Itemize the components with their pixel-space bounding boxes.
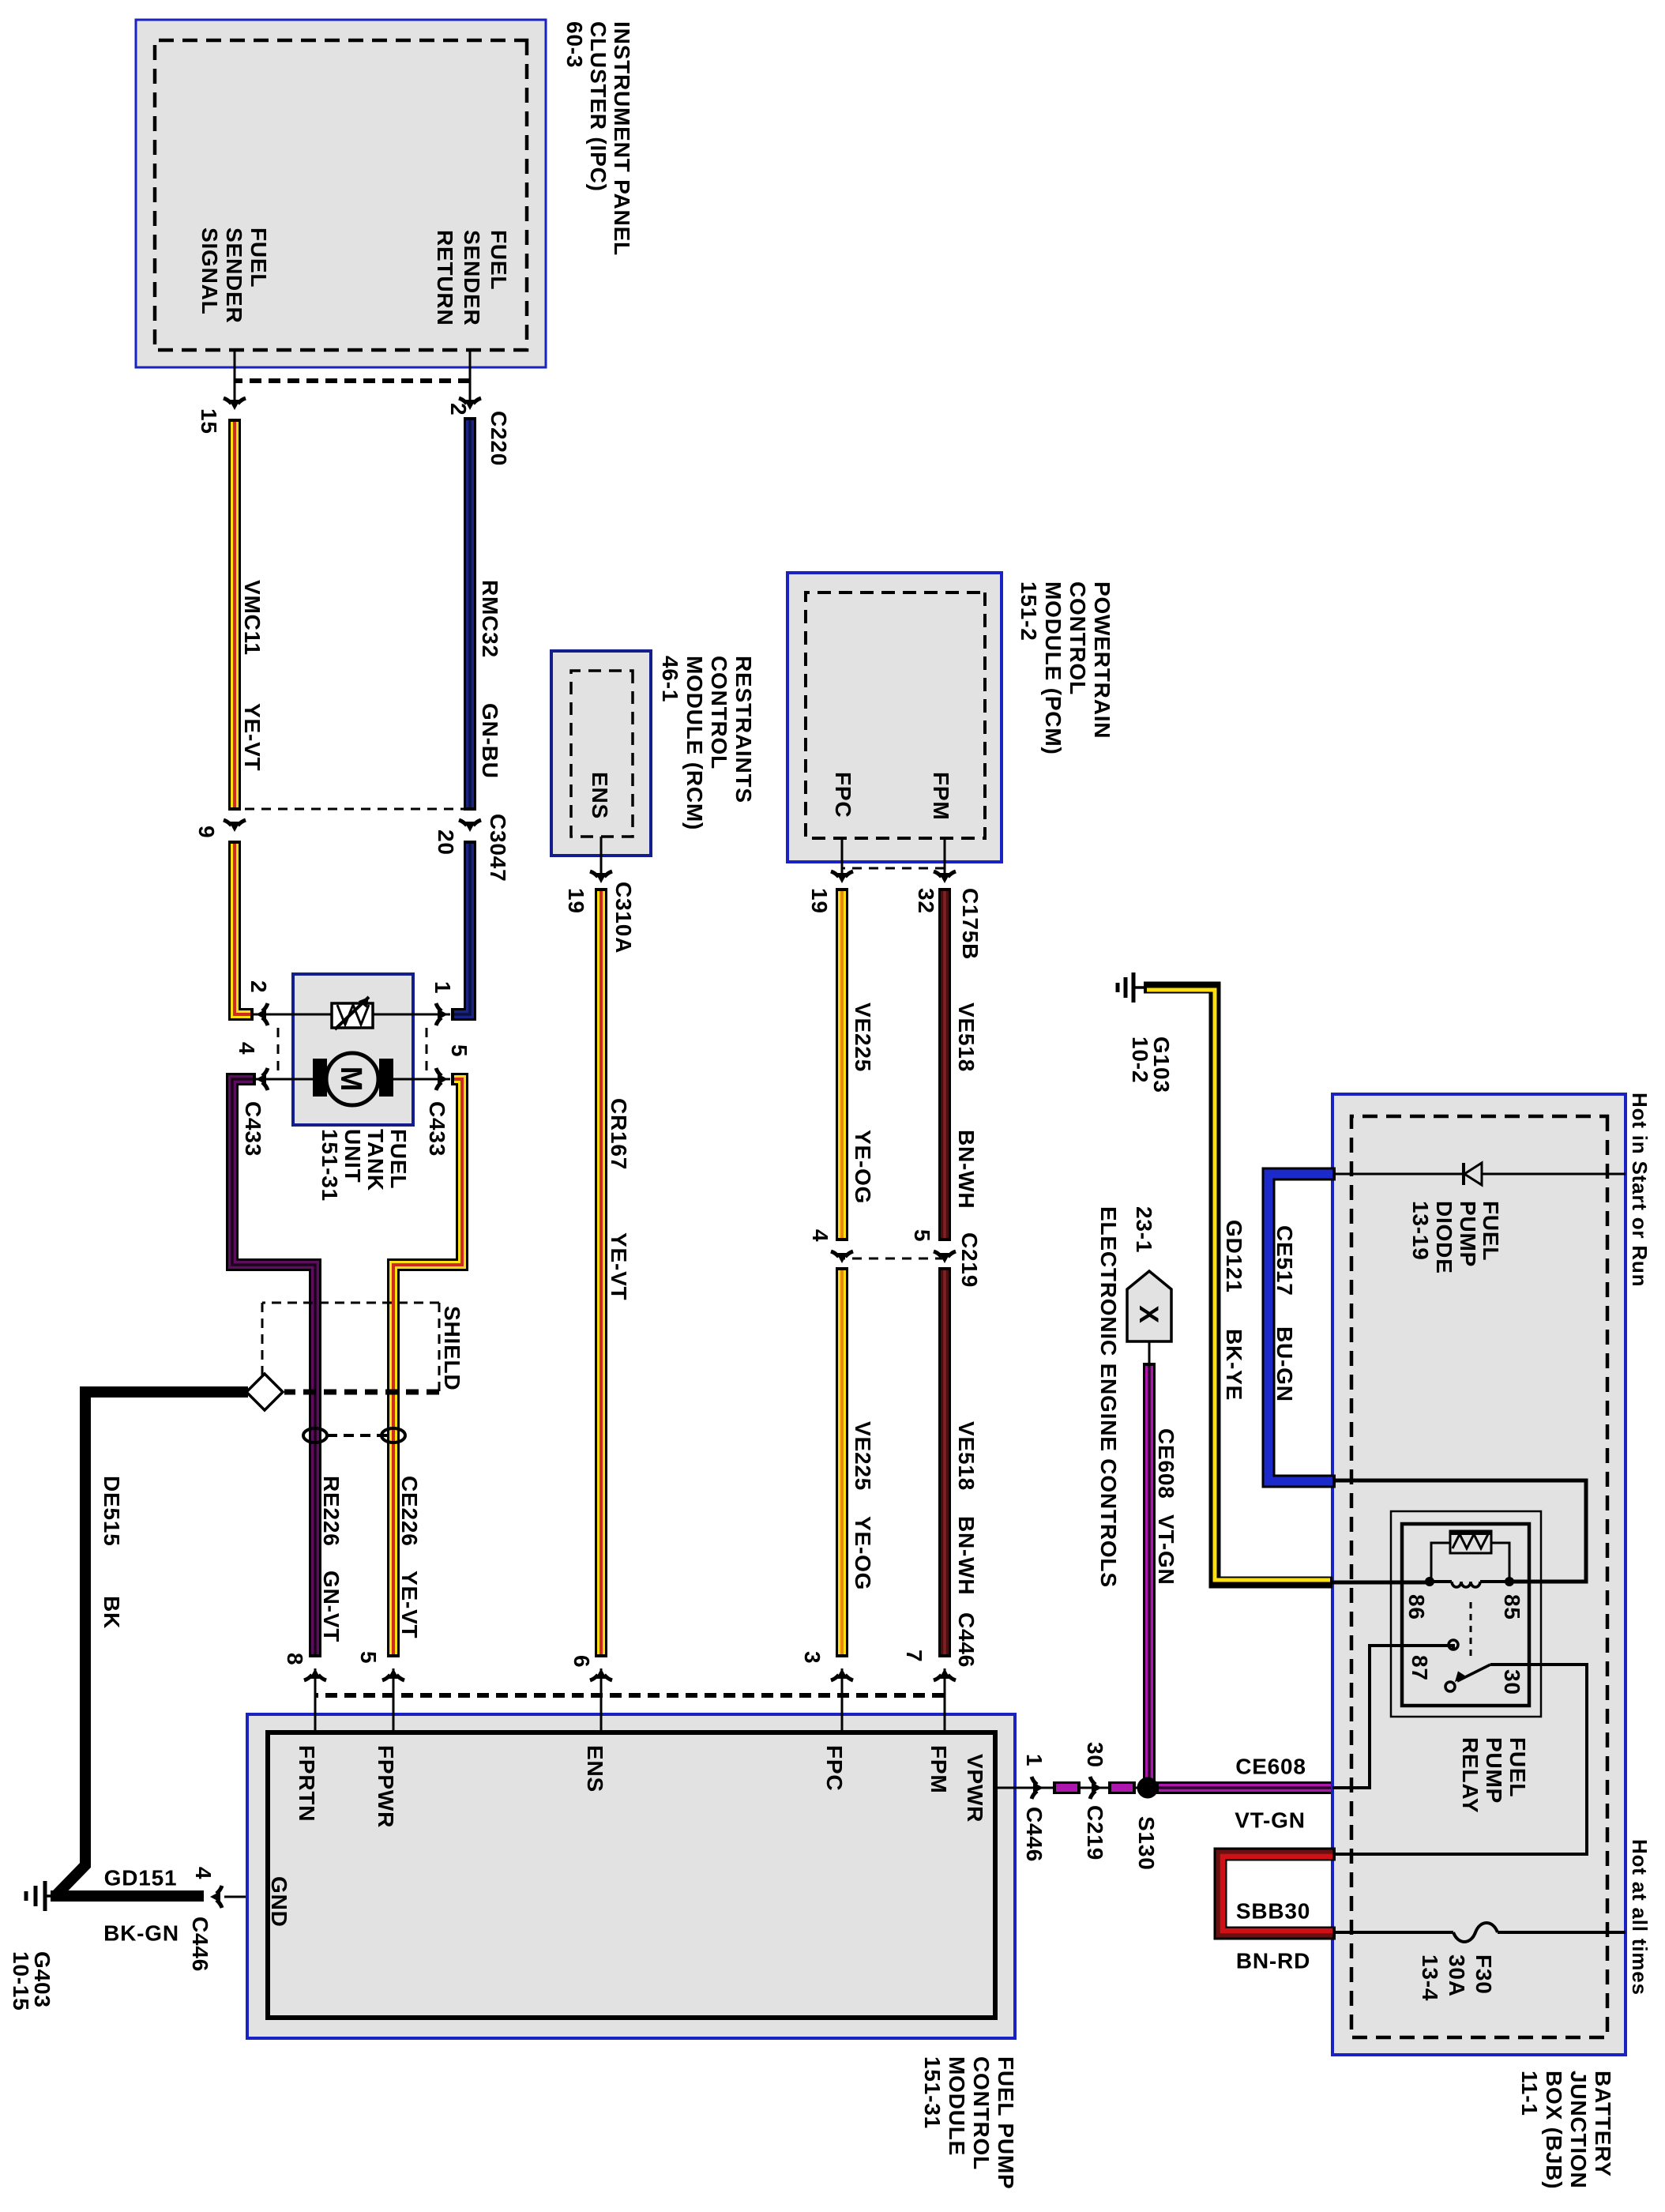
- svg-text:FPRTN: FPRTN: [295, 1745, 319, 1822]
- junction dot 85: [1505, 1577, 1514, 1586]
- PCM pin 32 arrow: [934, 871, 956, 883]
- pin arrow 9: [224, 820, 246, 832]
- wire GD151: [51, 1890, 204, 1902]
- pin arrow 2: [459, 398, 481, 410]
- IPC pin 2 stub wire: [469, 350, 472, 405]
- label FUEL SENDER RETURN: [433, 230, 511, 326]
- svg-text:GD121: GD121: [1222, 1220, 1246, 1293]
- svg-text:C433: C433: [241, 1101, 265, 1157]
- svg-text:C219: C219: [1083, 1805, 1107, 1860]
- svg-text:YE-VT: YE-VT: [397, 1571, 422, 1638]
- connector C175B dashed line: [842, 867, 945, 870]
- label G103 10-2: [1128, 1036, 1174, 1093]
- svg-text:POWERTRAIN: POWERTRAIN: [1090, 581, 1114, 739]
- svg-text:FUEL: FUEL: [1505, 1737, 1530, 1797]
- svg-text:1: 1: [1022, 1754, 1047, 1766]
- svg-text:30A: 30A: [1445, 1954, 1469, 1997]
- svg-text:C446: C446: [954, 1612, 979, 1668]
- svg-text:C175B: C175B: [958, 888, 983, 960]
- svg-text:BK: BK: [100, 1596, 124, 1629]
- label GD121 BK-YE: [1222, 1220, 1246, 1401]
- connector C433 dashed line right: [426, 1028, 428, 1070]
- svg-text:PUMP: PUMP: [1482, 1737, 1506, 1804]
- svg-text:MODULE (PCM): MODULE (PCM): [1041, 581, 1066, 755]
- svg-text:3: 3: [800, 1651, 825, 1664]
- label FUEL SENDER SIGNAL: [197, 228, 271, 324]
- svg-text:C446: C446: [1022, 1807, 1047, 1862]
- fuel pump diode feed line: [1332, 1173, 1626, 1176]
- label DE515 BK: [100, 1476, 124, 1629]
- sender wire through rheostat: [293, 1014, 413, 1016]
- label VE518 BN-WH upper: [954, 1003, 979, 1209]
- svg-text:FPM: FPM: [926, 1745, 951, 1794]
- svg-text:SHIELD: SHIELD: [440, 1306, 464, 1390]
- svg-text:MODULE (RCM): MODULE (RCM): [682, 656, 707, 830]
- svg-text:BOX (BJB): BOX (BJB): [1542, 2071, 1566, 2189]
- svg-text:FPM: FPM: [929, 772, 953, 821]
- svg-text:13-4: 13-4: [1418, 1954, 1442, 2001]
- relay terminal 87 contact: [1449, 1640, 1458, 1650]
- pin 2 lead: [251, 1014, 293, 1016]
- FPCM pin 3 arrow: [831, 1668, 853, 1680]
- PCM pin 19 lead: [841, 838, 844, 877]
- label FUEL TANK UNIT 151-31: [318, 1129, 411, 1202]
- svg-text:2: 2: [446, 403, 471, 416]
- svg-text:UNIT: UNIT: [340, 1129, 365, 1183]
- motor supply wire: [293, 1078, 413, 1081]
- svg-text:6: 6: [569, 1655, 594, 1668]
- svg-text:Hot at all times: Hot at all times: [1628, 1839, 1652, 1996]
- instrument panel cluster box: [136, 20, 546, 367]
- IPC inner dashed boundary: [155, 40, 527, 350]
- FPCM pin 5 arrow: [382, 1668, 404, 1680]
- pin arrow 15: [224, 398, 246, 410]
- svg-text:19: 19: [564, 888, 588, 914]
- svg-text:RETURN: RETURN: [433, 230, 457, 325]
- svg-text:BN-WH: BN-WH: [954, 1130, 979, 1209]
- svg-text:YE-VT: YE-VT: [240, 703, 265, 771]
- fuse element: [1453, 1923, 1498, 1942]
- svg-text:GND: GND: [267, 1876, 291, 1928]
- svg-text:YE-OG: YE-OG: [851, 1516, 875, 1590]
- svg-text:4: 4: [191, 1867, 216, 1879]
- motor brush top: [379, 1059, 393, 1097]
- label CR167 YE-VT: [607, 1098, 631, 1300]
- svg-text:DIODE: DIODE: [1432, 1201, 1456, 1274]
- svg-text:4: 4: [235, 1042, 259, 1055]
- svg-text:5: 5: [910, 1229, 934, 1242]
- svg-text:FPC: FPC: [831, 772, 855, 818]
- svg-text:VE518: VE518: [954, 1421, 979, 1491]
- svg-text:C3047: C3047: [486, 814, 510, 882]
- svg-text:30: 30: [1500, 1669, 1524, 1695]
- PCM pin 32 lead: [944, 838, 946, 877]
- label CE226 YE-VT: [397, 1476, 422, 1638]
- splice S130: [1137, 1777, 1159, 1799]
- svg-text:SENDER: SENDER: [222, 228, 246, 324]
- pin arrow 20: [459, 820, 481, 832]
- svg-text:CE608: CE608: [1235, 1754, 1306, 1778]
- svg-text:VE225: VE225: [851, 1421, 875, 1491]
- svg-text:ENS: ENS: [583, 1745, 607, 1793]
- svg-text:GN-VT: GN-VT: [319, 1571, 344, 1642]
- svg-text:GN-BU: GN-BU: [478, 703, 502, 779]
- motor brush bottom: [313, 1059, 327, 1097]
- relay outer box: [1391, 1511, 1541, 1717]
- svg-text:BK-YE: BK-YE: [1222, 1329, 1246, 1401]
- svg-text:ENS: ENS: [588, 772, 612, 819]
- label FUEL PUMP CONTROL MODULE 151-31: [920, 2056, 1018, 2189]
- svg-text:CONTROL: CONTROL: [707, 656, 731, 769]
- svg-text:CR167: CR167: [607, 1098, 631, 1170]
- ground symbol G103: [1118, 972, 1147, 1003]
- label VE518 BN-WH lower: [954, 1421, 979, 1595]
- svg-text:MODULE: MODULE: [945, 2056, 969, 2156]
- label INSTRUMENT PANEL CLUSTER (IPC) 60-3: [562, 21, 634, 256]
- relay switch arm: [1445, 1665, 1490, 1691]
- svg-text:19: 19: [807, 888, 832, 914]
- relay coil bumps: [1452, 1582, 1480, 1587]
- pentagon lead: [1148, 1341, 1151, 1366]
- label FUEL PUMP DIODE 13-19: [1408, 1201, 1503, 1274]
- pin 1 lead: [413, 1014, 450, 1016]
- RCM pin 19 arrow: [590, 871, 612, 883]
- svg-text:151-2: 151-2: [1017, 581, 1041, 641]
- FPCM pin 7 lead: [944, 1668, 946, 1732]
- svg-text:8: 8: [283, 1653, 307, 1665]
- svg-text:4: 4: [808, 1229, 832, 1242]
- svg-text:151-31: 151-31: [920, 2056, 945, 2129]
- BJB inner dashed boundary: [1351, 1116, 1607, 2037]
- label POWERTRAIN CONTROL MODULE (PCM) 151-2: [1017, 581, 1114, 755]
- svg-text:YE-VT: YE-VT: [607, 1232, 631, 1300]
- svg-text:BU-GN: BU-GN: [1272, 1326, 1297, 1402]
- pin 4 lead: [251, 1078, 293, 1081]
- GD121 continuation inside BJB to relay 86: [1332, 1581, 1430, 1585]
- pin 5 lead: [413, 1078, 450, 1081]
- svg-text:FPPWR: FPPWR: [374, 1745, 398, 1828]
- FPCM pin 6 arrow: [590, 1668, 612, 1680]
- svg-text:BN-RD: BN-RD: [1236, 1948, 1310, 1973]
- svg-text:BK-GN: BK-GN: [103, 1920, 179, 1945]
- svg-text:RELAY: RELAY: [1458, 1737, 1483, 1813]
- shield dashed boundary: [262, 1303, 439, 1395]
- label RESTRAINTS CONTROL MODULE (RCM) 46-1: [658, 656, 756, 830]
- VPWR pin lead line: [995, 1787, 1148, 1789]
- C219 pin 4 arrow: [831, 1251, 853, 1263]
- relay coil line: [1480, 1580, 1509, 1583]
- pin 5 arrow: [436, 1068, 448, 1090]
- svg-text:SBB30: SBB30: [1236, 1898, 1310, 1923]
- svg-text:23-1: 23-1: [1132, 1206, 1156, 1253]
- svg-text:87: 87: [1408, 1655, 1432, 1681]
- svg-text:11-1: 11-1: [1517, 2071, 1542, 2116]
- fuse feed line: [1498, 1931, 1626, 1934]
- svg-text:RESTRAINTS: RESTRAINTS: [731, 656, 756, 803]
- PCM pin 19 arrow: [831, 871, 853, 883]
- svg-text:M: M: [334, 1066, 367, 1092]
- connector C220 dashed line: [235, 378, 470, 383]
- svg-text:FUEL: FUEL: [386, 1129, 411, 1189]
- svg-text:F30: F30: [1471, 1954, 1496, 1995]
- wire GD121 BK-YE: [1144, 987, 1332, 1582]
- label RMC32 GN-BU: [478, 580, 502, 779]
- svg-text:X: X: [1133, 1305, 1163, 1323]
- svg-text:S130: S130: [1134, 1816, 1159, 1871]
- label CE517 BU-GN: [1272, 1225, 1297, 1402]
- svg-text:32: 32: [914, 888, 938, 914]
- pin 4 arrow: [256, 1068, 268, 1090]
- svg-text:60-3: 60-3: [562, 21, 587, 68]
- svg-text:CLUSTER (IPC): CLUSTER (IPC): [586, 21, 611, 192]
- FPCM pin 5 lead: [393, 1668, 395, 1732]
- svg-text:RE226: RE226: [319, 1476, 344, 1547]
- svg-text:46-1: 46-1: [658, 656, 682, 702]
- label G403 10-15: [9, 1951, 54, 2011]
- svg-text:CE226: CE226: [397, 1476, 422, 1547]
- svg-text:FUEL PUMP: FUEL PUMP: [994, 2056, 1018, 2189]
- label BATTERY JUNCTION BOX (BJB) 11-1: [1517, 2071, 1615, 2189]
- svg-text:FUEL: FUEL: [487, 230, 511, 290]
- connector 1 C446 arrow: [1032, 1777, 1043, 1799]
- svg-text:DE515: DE515: [100, 1476, 124, 1547]
- svg-text:CE517: CE517: [1272, 1225, 1297, 1296]
- rheostat (variable resistor): [332, 996, 373, 1029]
- svg-text:5: 5: [447, 1044, 472, 1057]
- junction dot 86: [1425, 1577, 1434, 1586]
- svg-text:10-2: 10-2: [1128, 1036, 1152, 1083]
- svg-text:C433: C433: [425, 1101, 449, 1157]
- off-page connector pentagon X: [1127, 1271, 1171, 1341]
- svg-text:20: 20: [434, 829, 458, 856]
- svg-text:INSTRUMENT PANEL: INSTRUMENT PANEL: [610, 21, 634, 256]
- relay inner box: [1402, 1524, 1529, 1706]
- connector C446 dashed line at FPCM: [315, 1693, 944, 1698]
- RCM pin 19 lead: [600, 837, 603, 877]
- svg-text:VE518: VE518: [954, 1003, 979, 1072]
- svg-text:FUEL: FUEL: [246, 228, 271, 288]
- svg-text:FPC: FPC: [822, 1745, 847, 1791]
- svg-text:C220: C220: [487, 411, 511, 466]
- svg-text:CE608: CE608: [1154, 1428, 1178, 1499]
- label F30 30A 13-4: [1418, 1954, 1496, 2001]
- FPCM pin 7 arrow: [934, 1668, 956, 1680]
- svg-text:YE-OG: YE-OG: [851, 1130, 875, 1204]
- FPCM pin 6 lead: [600, 1668, 603, 1732]
- svg-text:TANK: TANK: [363, 1129, 388, 1191]
- svg-text:VT-GN: VT-GN: [1235, 1808, 1306, 1832]
- FPCM pin 3 lead: [841, 1668, 844, 1732]
- svg-text:VT-GN: VT-GN: [1154, 1514, 1178, 1586]
- VPWR wire dash segment 1: [1108, 1781, 1136, 1794]
- svg-text:BATTERY: BATTERY: [1591, 2071, 1615, 2177]
- FPCM pin 8 arrow: [304, 1668, 326, 1680]
- svg-text:JUNCTION: JUNCTION: [1566, 2071, 1591, 2189]
- svg-text:VPWR: VPWR: [963, 1754, 987, 1823]
- BJB box: [1332, 1094, 1626, 2055]
- svg-text:9: 9: [194, 826, 219, 838]
- relay 30 connection to fuse: [1332, 1665, 1587, 1854]
- GND pin arrow: [210, 1886, 222, 1908]
- CE517 continuation inside BJB to relay 85: [1332, 1480, 1586, 1582]
- svg-text:Hot in Start or Run: Hot in Start or Run: [1628, 1093, 1652, 1287]
- label RE226 GN-VT: [319, 1476, 344, 1642]
- ground symbol G403: [26, 1881, 57, 1911]
- svg-text:RMC32: RMC32: [478, 580, 502, 658]
- RCM inner dashed boundary: [571, 671, 633, 837]
- pin 1 arrow: [436, 1003, 448, 1025]
- svg-text:85: 85: [1500, 1594, 1524, 1620]
- svg-text:15: 15: [197, 408, 221, 434]
- fuel tank unit box: [293, 974, 413, 1125]
- svg-text:PUMP: PUMP: [1456, 1201, 1480, 1267]
- FPCM box: [247, 1714, 1015, 2038]
- svg-text:FUEL: FUEL: [1479, 1201, 1503, 1261]
- svg-text:C219: C219: [957, 1232, 982, 1288]
- svg-text:86: 86: [1404, 1594, 1429, 1620]
- connector C219 dashed line: [842, 1258, 945, 1260]
- RCM box: [551, 651, 651, 856]
- svg-text:GD151: GD151: [104, 1865, 178, 1890]
- fuel pump diode: [1464, 1163, 1482, 1185]
- svg-text:1: 1: [430, 981, 455, 994]
- svg-text:VE225: VE225: [851, 1003, 875, 1072]
- relay economizer resistor: [1450, 1531, 1491, 1553]
- label CE608 VT-GN along wire: [1154, 1428, 1178, 1586]
- connector C3047 dashed line: [235, 808, 470, 811]
- fuel pump motor M: [326, 1053, 378, 1105]
- svg-text:CONTROL: CONTROL: [969, 2056, 994, 2170]
- C219 pin 5 arrow: [934, 1251, 956, 1263]
- svg-text:C310A: C310A: [611, 882, 636, 954]
- label VE225 YE-OG upper: [851, 1003, 875, 1204]
- label FUEL PUMP RELAY: [1458, 1737, 1530, 1813]
- svg-text:CONTROL: CONTROL: [1066, 581, 1090, 695]
- svg-text:2: 2: [246, 980, 271, 993]
- svg-text:13-19: 13-19: [1408, 1201, 1433, 1261]
- svg-text:C446: C446: [188, 1917, 212, 1972]
- svg-text:30: 30: [1083, 1742, 1107, 1768]
- connector C433 dashed line left: [277, 1028, 280, 1070]
- FPCM inner black box: [268, 1732, 995, 2018]
- pin 2 arrow: [256, 1003, 268, 1025]
- svg-text:SENDER: SENDER: [460, 230, 484, 326]
- GND pin lead: [224, 1896, 267, 1898]
- VPWR wire dash segment 2: [1053, 1781, 1081, 1794]
- svg-text:VMC11: VMC11: [240, 580, 265, 656]
- IPC pin 15 stub wire: [234, 350, 236, 405]
- label VMC11 YE-VT: [240, 580, 265, 771]
- twisted pair symbol: [303, 1428, 405, 1443]
- PCM inner dashed boundary: [806, 592, 985, 838]
- svg-text:7: 7: [902, 1650, 926, 1662]
- shield drain diamond: [246, 1374, 283, 1410]
- svg-text:BN-WH: BN-WH: [954, 1516, 979, 1595]
- connector 30 C219 arrow: [1090, 1777, 1102, 1799]
- relay 87 connection to CE608: [1332, 1646, 1453, 1788]
- resistor parallel connections: [1491, 1543, 1509, 1582]
- svg-text:5: 5: [356, 1651, 381, 1664]
- FPCM pin 8 lead: [314, 1668, 317, 1732]
- svg-text:SIGNAL: SIGNAL: [197, 228, 222, 315]
- label VE225 YE-OG lower: [851, 1421, 875, 1590]
- PCM box: [787, 573, 1002, 862]
- relay actuation dashed line: [1470, 1602, 1472, 1657]
- svg-text:ELECTRONIC ENGINE CONTROLS: ELECTRONIC ENGINE CONTROLS: [1096, 1206, 1121, 1588]
- svg-text:10-15: 10-15: [9, 1951, 33, 2011]
- svg-text:151-31: 151-31: [318, 1129, 342, 1202]
